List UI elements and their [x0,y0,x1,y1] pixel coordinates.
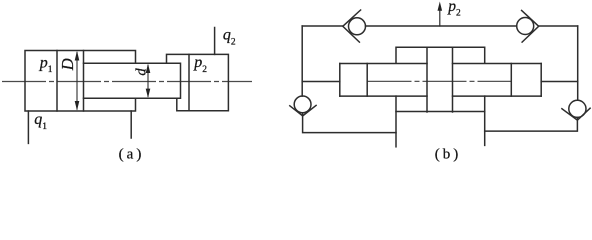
check valve bottom-left [290,96,316,116]
centerline of cylinder (a) [2,81,252,83]
right port drop line (b) [484,96,486,145]
svg-text:q1: q1 [34,111,47,132]
left pipe (b) [301,26,303,96]
pressure port arrow p2 [438,2,443,27]
svg-text:( a ): ( a ) [119,147,142,163]
left port drop line (b) [395,96,397,147]
check valve top-left [343,10,366,42]
piston (b) left face [426,47,428,112]
right pipe (b) [577,26,579,100]
top pipe (b) [302,25,578,27]
check valve top-right [517,10,539,42]
drain port line (a) [130,111,132,138]
svg-text:D: D [58,58,77,71]
check valve bottom-right [562,100,590,120]
port line q1 [27,111,29,143]
svg-text:d: d [133,68,149,76]
lower plate bottom line (b) [396,111,485,113]
left cap wire (b) [302,81,340,83]
cylinder body (a) [25,51,136,112]
cylinder partition wall [188,54,190,110]
right rod cap (b) [511,64,541,97]
dimension arrow d [146,64,151,98]
rod upper line (b) [340,63,541,65]
piston right face [83,51,85,112]
bottom-left wire (b) [303,113,396,133]
high pressure cylinder body (a) [167,54,229,110]
piston (b) right face [452,47,454,112]
centerline of cylinder (b) [368,80,512,82]
right cap wire (b) [541,81,578,83]
svg-text:q2: q2 [223,27,236,48]
rod lower line (b) [340,95,541,97]
left rod cap (b) [340,64,367,97]
svg-text:p1: p1 [39,54,53,75]
svg-text:( b ): ( b ) [435,147,459,163]
port line q2 [214,28,216,55]
upper plate of cylinder (b) [396,47,485,63]
piston rod (a) [84,63,181,98]
piston left face / chamber divider [56,51,58,112]
svg-text:p2: p2 [193,54,207,75]
bottom-right wire (b) [485,118,578,132]
svg-text:p2: p2 [447,0,461,19]
dimension arrow D [75,51,80,111]
